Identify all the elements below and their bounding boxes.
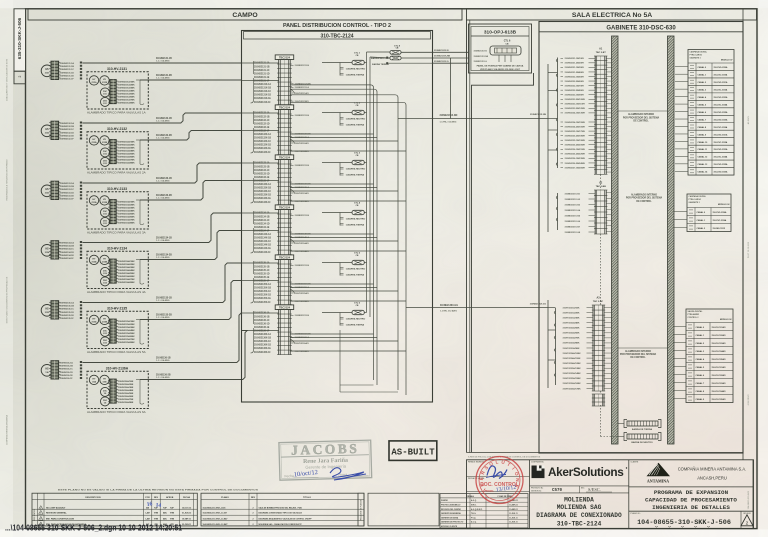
table row stub wire xyxy=(675,96,688,98)
barra de neutro xyxy=(627,434,658,439)
plano reference table xyxy=(201,493,364,526)
terminal ladder section 6 xyxy=(278,310,280,355)
inner riser wire 310-HV-2132 xyxy=(139,140,141,164)
table row stub wire xyxy=(675,155,688,157)
breaker output wire section 6 xyxy=(364,312,366,314)
header bar CAMPO xyxy=(28,9,462,20)
solenoid HY circles 310-HV-2132 xyxy=(89,136,98,145)
panel entry stub wires section 4 xyxy=(242,212,279,214)
breaker feed wire section 2 xyxy=(322,112,352,114)
vertical wire duct right xyxy=(668,36,675,444)
strip A2 row stubs to duct xyxy=(606,192,611,194)
breaker feed wire section 5 xyxy=(322,262,352,264)
table row stub wire xyxy=(673,334,686,336)
table row stub wire xyxy=(675,73,688,75)
bracket left section 4 xyxy=(251,211,254,253)
right tag rows section 5 xyxy=(290,264,293,266)
plano number cell xyxy=(629,510,753,512)
breaker feed wire section 3 xyxy=(322,162,352,164)
solenoid HY circles 310-HV-2135 xyxy=(89,315,98,324)
valve box 310-HV-2136A dashed enclosure xyxy=(87,371,148,408)
relacion de planos cell xyxy=(358,493,364,526)
table row stub wire xyxy=(673,374,686,376)
hand switch HS circle 310-HV-2133 xyxy=(41,185,53,197)
gabinete left bus A2 xyxy=(557,193,559,230)
table row stub wire xyxy=(673,398,686,400)
barra hooks section 5 xyxy=(340,268,344,270)
table row stub wire xyxy=(675,125,688,127)
terminal strip field 310-HV-2131 xyxy=(51,61,59,79)
panel collector verticals xyxy=(366,52,368,313)
neutral/ground bus wires section 3 xyxy=(290,183,373,185)
panel name plate 310-TBC-2124 xyxy=(244,32,431,39)
scan margin lightening xyxy=(0,0,768,8)
breaker feed wire section 4 xyxy=(322,212,352,214)
empty box xyxy=(368,493,439,526)
approvals table xyxy=(440,494,528,528)
limit switch ZSC/ZSO circles 310-HV-2131 xyxy=(101,88,110,97)
I/O table MODULO 07 xyxy=(688,50,734,176)
solenoid HY circles 310-HV-2133 xyxy=(89,196,98,205)
panel entry stub wires section 3 xyxy=(242,162,279,164)
table row stub wire xyxy=(674,211,687,213)
valve box 310-HV-2131 dashed enclosure xyxy=(87,72,148,109)
terminal strip inside 310-HV-2131 xyxy=(110,80,116,104)
small aux terminal box xyxy=(592,394,594,406)
table row stub wire xyxy=(675,118,688,120)
right tag rows section 2 xyxy=(290,114,293,116)
barra hooks section 4 xyxy=(340,218,344,220)
terminal section header box 6 xyxy=(275,305,294,310)
terminal ladder section 2 xyxy=(278,110,280,155)
revision row 0 xyxy=(32,520,197,522)
wire 310-HV-2135 valve box to panel xyxy=(140,281,242,320)
JACOBS stamp xyxy=(279,440,372,480)
wire 310-HV-2134 valve box to panel xyxy=(140,231,242,260)
limit switch ZSC/ZSO circles 310-HV-2132 xyxy=(101,148,110,157)
right tag rows section 4 xyxy=(290,214,293,216)
inner riser wire 310-HV-2136A xyxy=(139,380,141,404)
panel entry stub wires section 2 xyxy=(242,112,279,114)
inner riser wire 310-HV-2131 xyxy=(139,80,141,104)
limit switch ZSC/ZSO circles 310-HV-2136A xyxy=(101,387,110,396)
panel 310-OPJ-613B box xyxy=(469,24,532,73)
wall divider campo/sala xyxy=(466,20,468,453)
table row stub wire xyxy=(673,390,686,392)
valve box 310-HV-2133 dashed enclosure xyxy=(87,192,148,229)
terminal strip inside 310-HV-2134 xyxy=(110,259,116,283)
terminal strip field 310-HV-2134 xyxy=(51,241,59,259)
wire 310-HV-2131 HS to panel xyxy=(83,62,242,64)
table row stub wire xyxy=(674,227,687,229)
terminal section header box 1 xyxy=(275,55,294,60)
wire 310-HV-2132 HS to panel xyxy=(83,113,242,123)
title block frame xyxy=(467,452,744,454)
bracket left section 5 xyxy=(251,261,254,303)
hand switch HS circle 310-HV-2135 xyxy=(41,305,53,317)
terminal section header box 5 xyxy=(275,255,294,260)
table row stub wire xyxy=(675,148,688,150)
wire panel to gabinete upper xyxy=(398,118,548,120)
table row stub wire xyxy=(673,382,686,384)
barra de tierra xyxy=(627,421,658,426)
neutral/ground bus wires section 4 xyxy=(290,233,373,235)
hand switch HS circle 310-HV-2131 xyxy=(41,65,53,77)
solenoid HY circles 310-HV-2136A xyxy=(89,375,98,384)
table row stub wire xyxy=(675,140,688,142)
terminal section header box 2 xyxy=(275,105,294,110)
wire 310-HV-2132 valve box to panel xyxy=(140,131,242,141)
terminal ladder section 3 xyxy=(278,160,280,205)
terminal strip field 310-HV-2135 xyxy=(51,301,59,319)
revision row B xyxy=(32,525,197,527)
wire panel to gabinete lower xyxy=(406,307,548,309)
I/O table MODULO 02 xyxy=(687,194,731,232)
strip A3 row stubs to duct xyxy=(604,307,612,309)
left margin title box 635-310-SKK-J-506 xyxy=(14,9,26,71)
breaker output wire section 2 xyxy=(364,112,366,114)
inner riser wire 310-HV-2134 xyxy=(139,260,141,284)
vertical wire duct left xyxy=(612,36,619,444)
wire 310-HV-2134 HS to panel xyxy=(83,213,242,243)
strip A1 row stubs to duct xyxy=(606,57,611,59)
wire 310-HV-2136A valve box to panel xyxy=(140,331,247,380)
doc control blue signature xyxy=(487,466,507,479)
table row stub wire xyxy=(675,81,688,83)
limit switch ZSC/ZSO circles 310-HV-2133 xyxy=(101,208,110,217)
bracket left section 1 xyxy=(251,61,254,103)
hand switch HS circle 310-HV-2132 xyxy=(41,125,53,137)
table row stub wire xyxy=(675,111,688,113)
header bar SALA ELECTRICA No 5A xyxy=(467,9,757,20)
revision triangle xyxy=(740,511,742,528)
cable bundle mark 310-HV-2131 xyxy=(80,62,82,80)
table row stub wire xyxy=(675,66,688,68)
neutral/ground bus wires section 5 xyxy=(290,283,373,285)
gabinete left bus upper xyxy=(557,58,559,169)
breaker output wire section 3 xyxy=(364,162,366,164)
terminal strip inside 310-HV-2133 xyxy=(110,200,116,224)
wire 310-HV-2136A HS to panel xyxy=(83,313,242,363)
programa cell xyxy=(629,486,753,488)
cable bundle mark 310-HV-2133 xyxy=(80,182,82,200)
cable bundle mark 310-HV-2136A xyxy=(80,361,82,379)
table row stub wire xyxy=(673,358,686,360)
wire 310-HV-2131 valve box to panel xyxy=(140,79,242,81)
solenoid HY circles 310-HV-2134 xyxy=(89,255,98,264)
OPJ riser wires xyxy=(498,55,500,62)
terminal ladder section 5 xyxy=(278,260,280,305)
table row stub wire xyxy=(675,163,688,165)
panel entry stub wires section 1 xyxy=(242,62,279,64)
wire 310-HV-2133 HS to panel xyxy=(83,163,242,183)
breaker feed wire section 6 xyxy=(322,312,352,314)
valve box 310-HV-2132 dashed enclosure xyxy=(87,132,148,169)
aker solutions logo mark xyxy=(532,466,545,479)
hand switch HS circle 310-HV-2134 xyxy=(41,245,53,257)
I/O table MODULO 02 xyxy=(686,309,733,403)
revision row 2 xyxy=(32,508,197,510)
gabinete feeder wires upper xyxy=(548,71,558,73)
cable bundle mark 310-HV-2134 xyxy=(80,241,82,259)
breaker output wire section 1 xyxy=(364,62,366,64)
valve box 310-HV-2134 dashed enclosure xyxy=(87,251,148,288)
panel entry stub wires section 6 xyxy=(242,312,279,314)
client cell xyxy=(628,460,630,529)
barra hooks section 2 xyxy=(340,118,344,120)
inner riser wire 310-HV-2133 xyxy=(139,200,141,224)
right tag rows section 6 xyxy=(290,314,293,316)
bracket left section 3 xyxy=(251,161,254,203)
gabinete 310-DSC-630 enclosure xyxy=(539,22,743,454)
breaker feed wire section 1 xyxy=(322,62,352,64)
terminal ladder section 4 xyxy=(278,210,280,255)
wire 310-HV-2135 HS to panel xyxy=(83,263,242,303)
terminal section header box 3 xyxy=(275,155,294,160)
terminal strip field 310-HV-2136A xyxy=(51,361,59,379)
antamina logo xyxy=(647,463,671,476)
wire 310-HV-2133 valve box to panel xyxy=(140,181,242,201)
terminal strip inside 310-HV-2135 xyxy=(110,319,116,343)
revision row 1 xyxy=(32,514,197,516)
breaker strip inside OPJ xyxy=(490,46,521,55)
bracket left section 6 xyxy=(251,311,254,353)
neutral/ground bus wires section 6 xyxy=(290,333,373,335)
panel entry stub wires section 5 xyxy=(242,262,279,264)
wires panel to OPJ box xyxy=(401,51,468,53)
gabinete left bus lower xyxy=(555,308,557,385)
limit switch ZSC/ZSO circles 310-HV-2134 xyxy=(101,267,110,276)
JACOBS blue signature xyxy=(330,468,366,480)
table row stub wire xyxy=(673,366,686,368)
barra hooks section 3 xyxy=(340,168,344,170)
DOC CONTROL red stamp xyxy=(476,457,523,504)
table row stub wire xyxy=(675,133,688,135)
table row stub wire xyxy=(673,342,686,344)
gabinete terminal strip A1 xyxy=(594,56,596,174)
sala equipment enclosure line xyxy=(472,73,534,452)
table row stub wire xyxy=(674,219,687,221)
cable bundle mark 310-HV-2132 xyxy=(80,122,82,140)
table row stub wire xyxy=(675,88,688,90)
table row stub wire xyxy=(673,326,686,328)
terminal ladder section 1 xyxy=(278,60,280,105)
solenoid HY circles 310-HV-2131 xyxy=(89,76,98,85)
table row stub wire xyxy=(675,103,688,105)
right tag rows section 1 xyxy=(290,64,293,66)
dashed strip continuation xyxy=(600,175,602,191)
AS-BUILT box xyxy=(389,441,437,461)
limit switch ZSC/ZSO circles 310-HV-2135 xyxy=(101,327,110,336)
revision table xyxy=(32,493,197,526)
barra hooks section 6 xyxy=(340,318,344,320)
terminal strip inside 310-HV-2132 xyxy=(110,140,116,164)
annotation alambrado interno lower xyxy=(618,347,668,349)
right tag rows section 3 xyxy=(290,164,293,166)
terminal strip inside 310-HV-2136A xyxy=(110,379,116,403)
terminal strip field 310-HV-2133 xyxy=(51,181,59,199)
panel bottom bus lines xyxy=(340,384,374,386)
inner riser wire 310-HV-2135 xyxy=(139,320,141,344)
gabinete terminal strip A2 xyxy=(594,190,596,234)
table row stub wire xyxy=(675,170,688,172)
breaker output wire section 4 xyxy=(364,212,366,214)
neutral/ground bus wires section 2 xyxy=(290,133,373,135)
breaker output wire section 5 xyxy=(364,262,366,264)
hand switch HS circle 310-HV-2136A xyxy=(41,365,53,377)
table row stub wire xyxy=(673,350,686,352)
cable bundle mark 310-HV-2135 xyxy=(80,301,82,319)
bracket left section 2 xyxy=(251,111,254,153)
barra hooks section 1 xyxy=(340,68,344,70)
terminal strip field 310-HV-2132 xyxy=(51,121,59,139)
terminal section header box 4 xyxy=(275,205,294,210)
gabinete terminal strip A3 xyxy=(592,305,594,391)
valve box 310-HV-2135 dashed enclosure xyxy=(87,311,148,348)
annotation alambrado interno upper xyxy=(618,110,668,112)
